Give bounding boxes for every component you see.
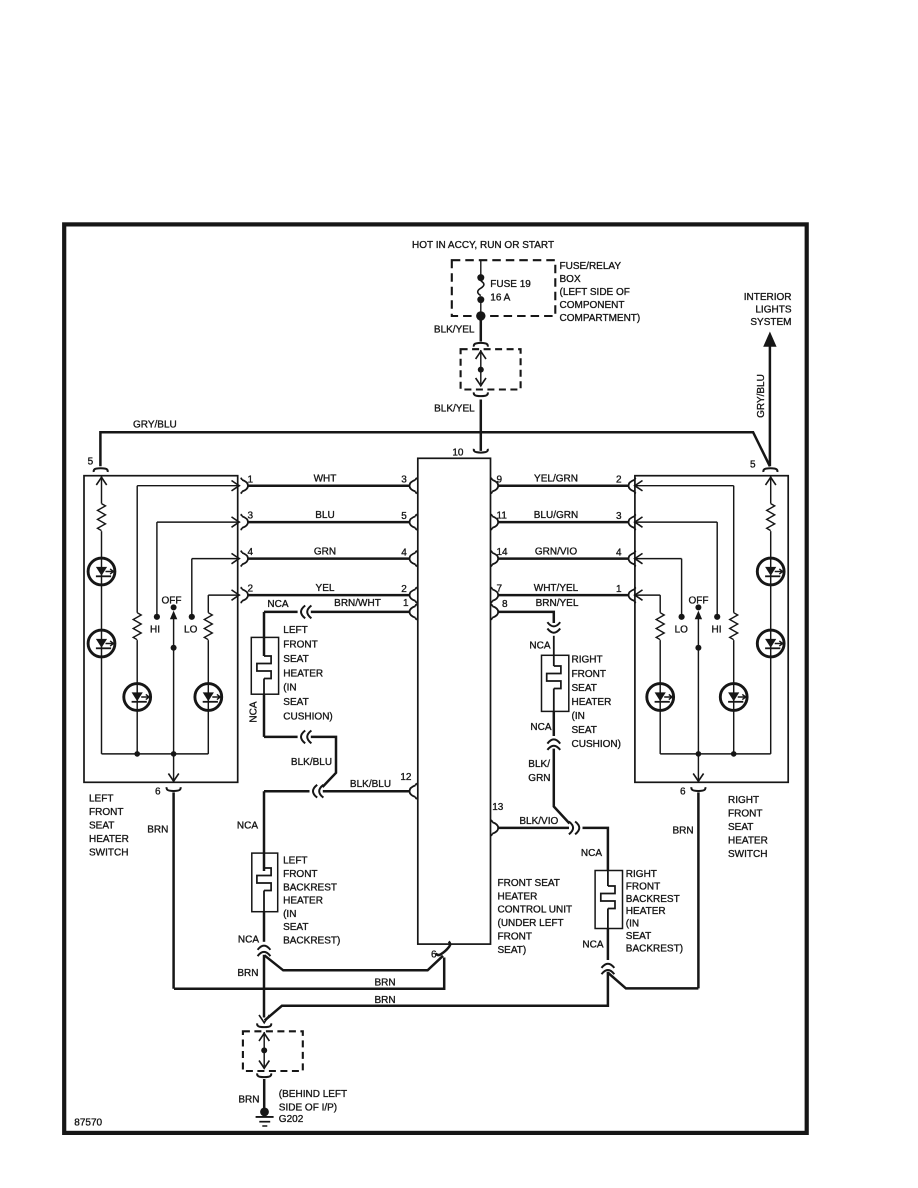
svg-text:GRY/BLU: GRY/BLU	[133, 420, 177, 431]
svg-text:BLU: BLU	[315, 510, 334, 521]
svg-text:6: 6	[155, 786, 161, 797]
svg-text:GRN/VIO: GRN/VIO	[535, 547, 577, 558]
svg-text:LEFT: LEFT	[283, 856, 307, 867]
svg-text:HEATER: HEATER	[626, 906, 666, 917]
svg-text:CUSHION): CUSHION)	[572, 739, 621, 750]
svg-text:1: 1	[616, 584, 622, 595]
svg-text:SEAT): SEAT)	[498, 945, 527, 956]
svg-text:WHT: WHT	[314, 474, 337, 485]
svg-text:3: 3	[248, 511, 254, 522]
svg-text:BACKREST): BACKREST)	[626, 943, 683, 954]
svg-text:BRN: BRN	[374, 995, 395, 1006]
svg-text:5: 5	[88, 457, 94, 468]
svg-text:NCA: NCA	[581, 848, 602, 859]
svg-text:BLK/BLU: BLK/BLU	[350, 779, 391, 790]
svg-text:BRN: BRN	[237, 968, 258, 979]
svg-text:FRONT SEAT: FRONT SEAT	[498, 878, 560, 889]
svg-text:BRN: BRN	[238, 1094, 259, 1105]
svg-text:CUSHION): CUSHION)	[283, 711, 332, 722]
svg-text:BLK/VIO: BLK/VIO	[519, 816, 558, 827]
svg-text:GRN: GRN	[528, 773, 550, 784]
svg-text:GRN: GRN	[314, 547, 336, 558]
svg-text:8: 8	[502, 599, 508, 610]
svg-text:LO: LO	[675, 624, 689, 635]
svg-text:SWITCH: SWITCH	[89, 848, 128, 859]
svg-text:HEATER: HEATER	[498, 891, 538, 902]
svg-text:HI: HI	[150, 624, 160, 635]
svg-text:(LEFT SIDE OF: (LEFT SIDE OF	[560, 287, 630, 298]
svg-text:NCA: NCA	[238, 935, 259, 946]
svg-text:YEL/GRN: YEL/GRN	[534, 474, 578, 485]
svg-text:COMPARTMENT): COMPARTMENT)	[560, 313, 641, 324]
svg-text:BLK/YEL: BLK/YEL	[434, 403, 475, 414]
svg-text:HEATER: HEATER	[572, 697, 612, 708]
svg-text:HI: HI	[712, 624, 722, 635]
svg-text:4: 4	[401, 548, 407, 559]
svg-text:2: 2	[616, 475, 622, 486]
svg-text:SEAT: SEAT	[283, 922, 308, 933]
svg-text:FRONT: FRONT	[89, 807, 123, 818]
svg-text:LIGHTS: LIGHTS	[755, 305, 791, 316]
svg-text:WHT/YEL: WHT/YEL	[534, 583, 579, 594]
svg-text:GRY/BLU: GRY/BLU	[756, 374, 767, 418]
svg-text:2: 2	[401, 584, 407, 595]
svg-text:(IN: (IN	[283, 909, 296, 920]
svg-text:(IN: (IN	[283, 683, 296, 694]
svg-text:(BEHIND LEFT: (BEHIND LEFT	[279, 1089, 347, 1100]
svg-text:HEATER: HEATER	[283, 896, 323, 907]
svg-text:SEAT: SEAT	[89, 821, 114, 832]
svg-text:LEFT: LEFT	[89, 794, 113, 805]
svg-text:BLK/BLU: BLK/BLU	[291, 757, 332, 768]
svg-text:BRN: BRN	[374, 978, 395, 989]
svg-text:4: 4	[616, 548, 622, 559]
svg-text:RIGHT: RIGHT	[572, 655, 603, 666]
svg-text:NCA: NCA	[529, 641, 550, 652]
svg-text:RIGHT: RIGHT	[728, 795, 759, 806]
svg-text:5: 5	[750, 460, 756, 471]
svg-text:SWITCH: SWITCH	[728, 849, 767, 860]
svg-text:87570: 87570	[74, 1117, 102, 1128]
svg-text:SEAT: SEAT	[572, 725, 597, 736]
svg-text:NCA: NCA	[249, 701, 260, 722]
svg-text:FRONT: FRONT	[728, 809, 762, 820]
svg-text:BACKREST: BACKREST	[626, 894, 680, 905]
svg-text:BOX: BOX	[560, 274, 581, 285]
svg-text:SIDE OF I/P): SIDE OF I/P)	[279, 1102, 337, 1113]
svg-text:INTERIOR: INTERIOR	[744, 292, 792, 303]
svg-text:FRONT: FRONT	[626, 881, 660, 892]
svg-text:G202: G202	[279, 1114, 304, 1125]
svg-text:(IN: (IN	[572, 711, 585, 722]
svg-text:16 A: 16 A	[490, 293, 510, 304]
svg-text:CONTROL UNIT: CONTROL UNIT	[498, 905, 573, 916]
svg-text:FUSE/RELAY: FUSE/RELAY	[560, 261, 622, 272]
svg-text:4: 4	[248, 547, 254, 558]
svg-text:7: 7	[497, 584, 503, 595]
svg-text:BRN/WHT: BRN/WHT	[334, 598, 381, 609]
svg-text:BACKREST: BACKREST	[283, 882, 337, 893]
svg-text:COMPONENT: COMPONENT	[560, 300, 625, 311]
svg-text:10: 10	[452, 447, 464, 458]
svg-text:RIGHT: RIGHT	[626, 869, 657, 880]
svg-text:BRN/YEL: BRN/YEL	[536, 598, 579, 609]
svg-text:13: 13	[492, 802, 504, 813]
svg-text:SEAT: SEAT	[283, 654, 308, 665]
svg-text:BRN: BRN	[672, 826, 693, 837]
svg-text:FRONT: FRONT	[283, 640, 317, 651]
svg-text:HEATER: HEATER	[89, 834, 129, 845]
svg-text:12: 12	[400, 772, 412, 783]
svg-text:SEAT: SEAT	[283, 697, 308, 708]
svg-text:1: 1	[403, 598, 409, 609]
svg-text:(UNDER LEFT: (UNDER LEFT	[498, 918, 564, 929]
svg-text:SEAT: SEAT	[626, 931, 651, 942]
svg-text:FUSE 19: FUSE 19	[490, 279, 531, 290]
svg-text:1: 1	[248, 474, 254, 485]
svg-text:2: 2	[248, 584, 254, 595]
svg-text:5: 5	[401, 511, 407, 522]
svg-text:SEAT: SEAT	[572, 683, 597, 694]
svg-text:NCA: NCA	[582, 939, 603, 950]
svg-text:3: 3	[616, 511, 622, 522]
svg-text:FRONT: FRONT	[572, 669, 606, 680]
svg-text:HEATER: HEATER	[728, 836, 768, 847]
svg-text:3: 3	[401, 475, 407, 486]
svg-text:6: 6	[431, 950, 437, 961]
svg-text:BLU/GRN: BLU/GRN	[534, 510, 578, 521]
svg-text:9: 9	[497, 474, 503, 485]
svg-text:YEL: YEL	[316, 583, 335, 594]
svg-text:FRONT: FRONT	[283, 869, 317, 880]
svg-text:NCA: NCA	[530, 722, 551, 733]
svg-text:SYSTEM: SYSTEM	[750, 317, 791, 328]
svg-text:HOT IN ACCY, RUN OR START: HOT IN ACCY, RUN OR START	[412, 240, 554, 251]
svg-text:OFF: OFF	[162, 596, 182, 607]
svg-text:BLK/YEL: BLK/YEL	[434, 325, 475, 336]
svg-text:LO: LO	[184, 624, 198, 635]
svg-text:BRN: BRN	[147, 825, 168, 836]
svg-text:LEFT: LEFT	[283, 625, 307, 636]
svg-text:(IN: (IN	[626, 919, 639, 930]
svg-text:BLK/: BLK/	[528, 759, 550, 770]
svg-text:SEAT: SEAT	[728, 822, 753, 833]
svg-text:FRONT: FRONT	[498, 932, 532, 943]
svg-text:11: 11	[497, 511, 508, 522]
svg-text:BACKREST): BACKREST)	[283, 936, 340, 947]
svg-text:NCA: NCA	[267, 599, 288, 610]
svg-text:OFF: OFF	[689, 596, 709, 607]
svg-text:6: 6	[680, 786, 686, 797]
svg-text:14: 14	[497, 547, 509, 558]
svg-text:HEATER: HEATER	[283, 668, 323, 679]
svg-text:NCA: NCA	[237, 820, 258, 831]
